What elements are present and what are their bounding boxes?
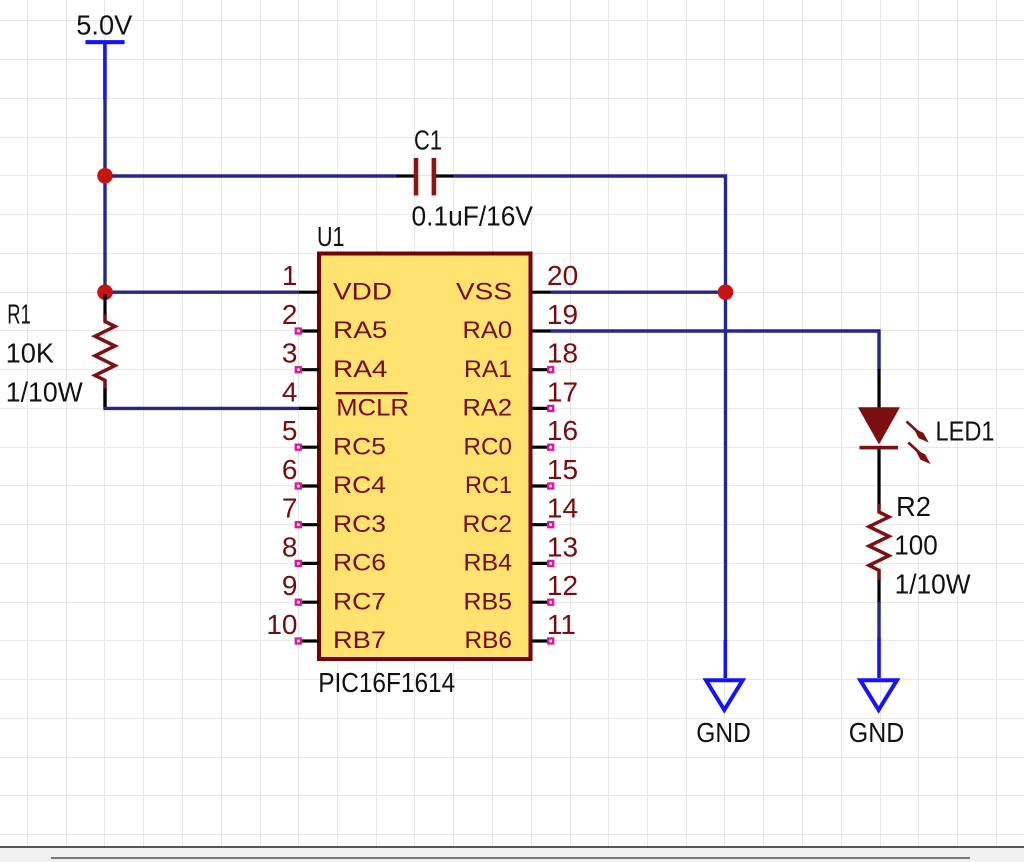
pin 14 unconnected marker — [548, 522, 553, 527]
svg-text:RC0: RC0 — [464, 433, 513, 460]
node A junction dot — [97, 168, 113, 184]
svg-text:9: 9 — [282, 570, 298, 601]
svg-text:5: 5 — [282, 415, 298, 446]
svg-text:13: 13 — [547, 531, 578, 562]
LED1 light arrow upper — [907, 422, 929, 443]
svg-text:18: 18 — [547, 338, 578, 369]
ground symbol GND2 — [860, 638, 897, 710]
pin 7 lead — [299, 523, 319, 526]
svg-text:RA4: RA4 — [333, 356, 388, 383]
svg-text:5.0V: 5.0V — [76, 9, 132, 40]
svg-text:VDD: VDD — [333, 278, 392, 305]
svg-text:14: 14 — [547, 493, 578, 524]
power symbol 5.0V — [85, 40, 124, 99]
svg-text:RB6: RB6 — [465, 627, 513, 654]
svg-text:R1: R1 — [7, 299, 31, 330]
wire from R1 bottom to pin 4 MCLR — [105, 388, 299, 409]
svg-text:RA0: RA0 — [463, 317, 513, 344]
pin 10 unconnected marker — [296, 639, 301, 644]
pin 2 lead — [299, 329, 319, 332]
sheet/scrollbar separator line — [0, 846, 1024, 848]
svg-text:1/10W: 1/10W — [6, 377, 84, 408]
svg-text:LED1: LED1 — [936, 416, 995, 447]
svg-text:10K: 10K — [6, 338, 55, 369]
svg-text:15: 15 — [547, 454, 578, 485]
pin 16 lead — [531, 446, 551, 449]
wire vertical from 5.0V rail down to R1 top node — [103, 99, 106, 293]
pin 15 lead — [531, 484, 551, 487]
pin 5 lead — [299, 446, 319, 449]
svg-text:RC2: RC2 — [463, 511, 513, 538]
horizontal scrollbar track — [0, 848, 1024, 862]
pin 19 lead — [531, 329, 551, 332]
pin 9 lead — [299, 601, 319, 604]
MCLR overline — [336, 392, 408, 394]
pin 11 unconnected marker — [548, 639, 553, 644]
svg-text:0.1uF/16V: 0.1uF/16V — [412, 201, 534, 232]
svg-text:100: 100 — [894, 530, 938, 561]
svg-text:RB7: RB7 — [333, 627, 386, 654]
pin 13 lead — [531, 562, 551, 565]
pin 3 lead — [299, 368, 319, 371]
wire from node B to pin 1 VDD — [105, 291, 299, 294]
svg-text:RA2: RA2 — [463, 395, 513, 422]
wire from C1 right lead across and down to GND1 — [453, 176, 726, 641]
pin 1 lead — [299, 291, 319, 294]
pin 5 unconnected marker — [296, 445, 301, 450]
svg-text:1: 1 — [282, 260, 298, 291]
svg-text:8: 8 — [282, 531, 298, 562]
pin 4 lead — [299, 407, 319, 410]
svg-text:1/10W: 1/10W — [895, 568, 972, 599]
wire from pin 19 RA0 right and down to LED1 anode — [551, 331, 880, 371]
svg-text:MCLR: MCLR — [336, 395, 409, 422]
svg-text:16: 16 — [547, 415, 578, 446]
pin 2 unconnected marker — [296, 329, 301, 334]
svg-text:RB4: RB4 — [464, 550, 513, 577]
pin 17 lead — [531, 407, 551, 410]
svg-text:10: 10 — [266, 609, 297, 640]
pin 12 lead — [531, 601, 551, 604]
svg-text:7: 7 — [282, 493, 298, 524]
pin 8 lead — [299, 562, 319, 565]
pin 9 unconnected marker — [296, 600, 301, 605]
pin 18 lead — [531, 368, 551, 371]
svg-text:PIC16F1614: PIC16F1614 — [318, 667, 455, 698]
svg-text:17: 17 — [547, 376, 578, 407]
svg-text:U1: U1 — [317, 221, 345, 252]
pin 10 lead — [299, 639, 319, 642]
svg-text:6: 6 — [282, 454, 298, 485]
svg-text:19: 19 — [547, 299, 578, 330]
svg-text:RC1: RC1 — [465, 472, 512, 499]
pin 15 unconnected marker — [548, 484, 553, 489]
node C junction dot — [718, 284, 734, 300]
svg-text:RA1: RA1 — [464, 356, 512, 383]
svg-text:RC4: RC4 — [333, 472, 386, 499]
pin 20 lead — [531, 291, 551, 294]
pin 17 unconnected marker — [548, 406, 553, 411]
LED1 light arrow lower — [908, 443, 930, 465]
wire horizontal from node A to C1 left lead — [105, 174, 397, 177]
wire from R2 bottom to GND2 — [877, 602, 880, 639]
pin 11 lead — [531, 639, 551, 642]
svg-text:GND: GND — [696, 717, 751, 748]
svg-text:RC6: RC6 — [333, 550, 386, 577]
svg-text:2: 2 — [282, 299, 298, 330]
capacitor C1 — [397, 158, 454, 195]
horizontal scrollbar thumb — [51, 857, 970, 859]
pin 6 lead — [299, 484, 319, 487]
wire from pin 20 VSS to node C — [551, 291, 726, 294]
svg-text:R2: R2 — [896, 491, 931, 522]
node B junction dot — [97, 284, 113, 300]
svg-text:3: 3 — [282, 338, 298, 369]
pin 13 unconnected marker — [548, 561, 553, 566]
svg-text:GND: GND — [849, 717, 905, 748]
pin 7 unconnected marker — [296, 522, 301, 527]
svg-text:RC7: RC7 — [333, 588, 386, 615]
pin 6 unconnected marker — [296, 484, 301, 489]
resistor R2 — [869, 504, 889, 604]
svg-text:RA5: RA5 — [333, 317, 388, 344]
resistor R1 — [95, 294, 115, 407]
svg-text:11: 11 — [547, 609, 576, 640]
svg-text:VSS: VSS — [456, 278, 512, 305]
svg-text:20: 20 — [547, 260, 578, 291]
svg-text:RB5: RB5 — [464, 588, 513, 615]
svg-text:12: 12 — [547, 570, 578, 601]
svg-text:4: 4 — [282, 376, 298, 407]
op-amp/IC body U1 — [319, 254, 531, 660]
svg-text:RC3: RC3 — [333, 511, 386, 538]
LED1 diode — [858, 369, 900, 506]
pin 8 unconnected marker — [296, 561, 301, 566]
ground symbol GND1 — [706, 640, 743, 710]
pin 18 unconnected marker — [548, 367, 553, 372]
svg-text:C1: C1 — [414, 125, 442, 156]
svg-text:RC5: RC5 — [333, 433, 386, 460]
pin 16 unconnected marker — [548, 445, 553, 450]
pin 12 unconnected marker — [548, 600, 553, 605]
pin 3 unconnected marker — [296, 367, 301, 372]
pin 14 lead — [531, 523, 551, 526]
